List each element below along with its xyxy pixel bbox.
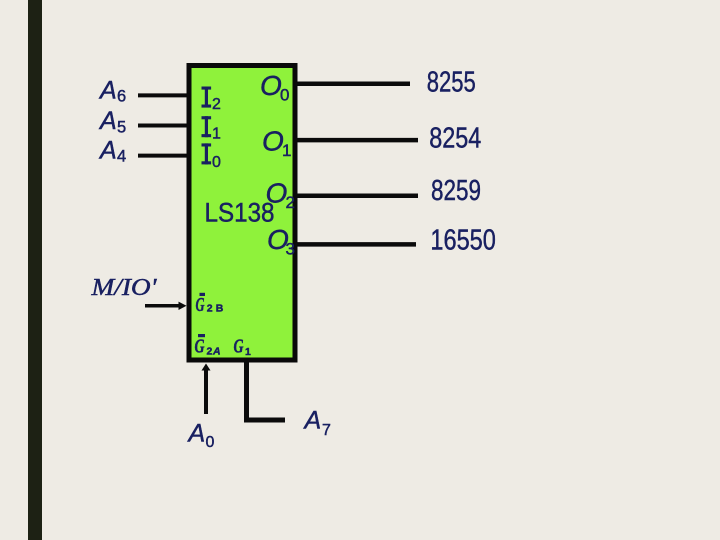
wire O2 to 8259 bbox=[295, 193, 418, 198]
pin I1 bbox=[202, 116, 222, 142]
svg-text:3: 3 bbox=[286, 239, 295, 258]
svg-text:G: G bbox=[234, 336, 244, 357]
label LS138 bbox=[205, 198, 275, 228]
svg-text:1: 1 bbox=[212, 126, 221, 143]
svg-text:0: 0 bbox=[212, 154, 221, 171]
node 8259 bbox=[431, 175, 481, 207]
wire M/IO' arrow to G2B bbox=[145, 302, 187, 310]
svg-text:5: 5 bbox=[117, 119, 126, 137]
pin G2A bbox=[195, 334, 221, 358]
pin I2 bbox=[202, 87, 222, 114]
node 8255 bbox=[427, 66, 476, 98]
svg-text:6: 6 bbox=[117, 88, 126, 106]
svg-text:G: G bbox=[195, 337, 205, 358]
svg-text:2: 2 bbox=[207, 303, 213, 315]
wire A4 to I0 bbox=[138, 154, 189, 158]
node A7 bbox=[303, 407, 332, 439]
svg-text:A: A bbox=[98, 76, 117, 104]
wire A0 arrow to G2A bbox=[202, 364, 211, 415]
svg-text:7: 7 bbox=[322, 422, 331, 439]
wire A5 to I1 bbox=[138, 124, 189, 128]
wire A6 to I2 bbox=[138, 93, 189, 97]
svg-text:16550: 16550 bbox=[430, 225, 496, 257]
svg-text:1: 1 bbox=[245, 346, 251, 358]
svg-text:G: G bbox=[196, 294, 205, 316]
node A4 bbox=[98, 136, 126, 165]
svg-text:O: O bbox=[266, 178, 288, 209]
svg-text:2: 2 bbox=[212, 96, 221, 113]
svg-text:1: 1 bbox=[282, 141, 291, 160]
decoder U1 LS138 body bbox=[189, 66, 295, 361]
svg-text:LS138: LS138 bbox=[205, 198, 275, 228]
node M/IO' bbox=[90, 274, 157, 301]
node 16550 bbox=[430, 225, 496, 257]
svg-text:8254: 8254 bbox=[429, 123, 481, 155]
svg-text:A: A bbox=[303, 407, 322, 435]
svg-text:8259: 8259 bbox=[431, 175, 481, 207]
pin G2B bbox=[196, 293, 224, 316]
node 8254 bbox=[429, 123, 481, 155]
pin O1 bbox=[262, 126, 291, 161]
node A6 bbox=[98, 76, 126, 105]
wire A7 to G1 bbox=[247, 360, 286, 420]
svg-text:2: 2 bbox=[207, 345, 213, 357]
svg-text:0: 0 bbox=[280, 86, 289, 105]
pin O0 bbox=[260, 70, 289, 105]
svg-text:0: 0 bbox=[206, 434, 215, 451]
node A0 bbox=[187, 419, 215, 451]
svg-text:A: A bbox=[98, 136, 117, 164]
wire O1 to 8254 bbox=[295, 138, 418, 143]
svg-text:M/IO': M/IO' bbox=[90, 274, 157, 301]
pin I0 bbox=[202, 143, 222, 170]
svg-text:2: 2 bbox=[286, 193, 295, 212]
svg-text:A: A bbox=[187, 419, 206, 447]
node A5 bbox=[98, 107, 126, 136]
svg-text:A: A bbox=[98, 107, 117, 135]
svg-text:4: 4 bbox=[117, 148, 126, 166]
svg-text:O: O bbox=[262, 126, 284, 157]
svg-text:A: A bbox=[212, 345, 221, 357]
wire O0 to 8255 bbox=[295, 81, 410, 86]
pin O2 bbox=[266, 178, 295, 212]
svg-text:8255: 8255 bbox=[427, 66, 476, 98]
svg-text:B: B bbox=[216, 303, 224, 315]
svg-text:O: O bbox=[260, 70, 282, 101]
pin G1 bbox=[234, 336, 252, 358]
wire O3 to 16550 bbox=[295, 242, 416, 247]
pin O3 bbox=[267, 224, 295, 259]
